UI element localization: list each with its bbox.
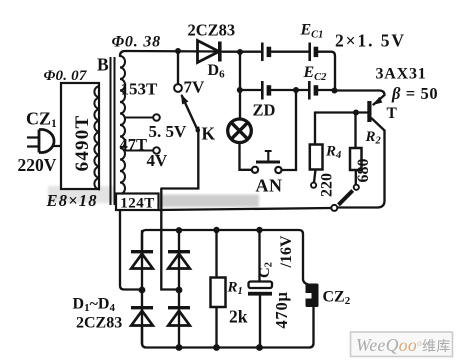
junction: top rail / R1	[213, 227, 219, 233]
tap 5.5V stub + terminal	[125, 114, 160, 121]
wire: base node down to R2	[354, 113, 356, 149]
plug CZ1	[27, 130, 54, 153]
wire: battery row2 right + emitter feed	[318, 90, 385, 105]
wire: battery row2 mid	[272, 89, 309, 91]
svg-text:3AX31: 3AX31	[376, 66, 427, 83]
switch K arm	[181, 94, 200, 133]
tap 4V stub + terminal	[125, 147, 160, 154]
wire: 7V drop	[177, 51, 179, 84]
socket CZ2	[306, 284, 319, 308]
svg-text:2CZ83: 2CZ83	[188, 21, 236, 40]
junction: bridge col1 midpoint	[139, 287, 146, 294]
wire: switch to collector riser	[338, 131, 385, 208]
wire: K pivot down, left, down to bridge col2 mid	[161, 128, 198, 290]
svg-text:/16V: /16V	[278, 235, 295, 268]
junction: top rail / col2	[176, 227, 182, 233]
wire: bottom row to on/off switch	[159, 208, 332, 210]
svg-text:6490T: 6490T	[72, 115, 93, 172]
bridge diode D1 (col1 top)	[131, 250, 153, 269]
resistor R1	[211, 278, 226, 308]
svg-text:47T: 47T	[120, 135, 148, 154]
wire: battery row2 left	[240, 89, 262, 91]
wire: secondary top to diode anode	[120, 51, 221, 56]
watermark box bottom right	[351, 332, 453, 357]
wire: diode node down through lamp node	[239, 52, 241, 118]
junction: bottom rail / col2	[176, 344, 183, 351]
svg-text:B: B	[97, 55, 109, 75]
diode D6	[198, 41, 222, 63]
primary winding box 6490T	[61, 83, 99, 189]
transformer core	[111, 57, 115, 205]
junction: D6 cathode node	[237, 49, 243, 55]
svg-text:220: 220	[319, 173, 336, 197]
wire: base wire	[315, 111, 367, 113]
wire: transformer bottom down to bridge col1 mid	[120, 204, 139, 290]
svg-text:D1~D4: D1~D4	[73, 296, 116, 315]
bridge diode D3 (col1 bottom)	[131, 306, 153, 326]
svg-text:Φ0. 07: Φ0. 07	[44, 68, 87, 84]
lamp ZD	[228, 119, 252, 143]
svg-text:2k: 2k	[229, 307, 248, 327]
push button AN	[252, 151, 282, 173]
wire: collector diagonal	[372, 119, 385, 131]
svg-text:Φ0. 38: Φ0. 38	[112, 34, 161, 51]
battery EC1 cells	[261, 43, 318, 62]
svg-text:4V: 4V	[147, 151, 169, 170]
primary coil bumps	[94, 86, 100, 190]
svg-text:AN: AN	[256, 176, 283, 196]
svg-text:2CZ83: 2CZ83	[76, 315, 122, 332]
svg-text:E8×18: E8×18	[46, 191, 98, 210]
junction: base / R2 node	[353, 110, 359, 116]
wire: diode cathode to battery row 1	[223, 51, 262, 53]
junction: top rail / C2	[256, 227, 262, 233]
wire: R2 bottom stub	[355, 170, 357, 185]
resistor R2	[350, 148, 362, 170]
svg-text:7V: 7V	[184, 78, 206, 97]
svg-text:2×1. 5V: 2×1. 5V	[335, 31, 406, 51]
wire: R1 stubs	[215, 230, 217, 348]
R2 bottom contact	[354, 185, 359, 190]
secondary coil bumps	[120, 56, 125, 205]
svg-text:680: 680	[355, 159, 372, 183]
wire: bridge col1 segments	[141, 231, 143, 344]
wire: AN right up to row2	[282, 90, 296, 170]
svg-text:470μ: 470μ	[272, 291, 291, 328]
junction: AN riser on row2	[293, 87, 299, 93]
7V terminal	[174, 84, 182, 92]
wire: R4 bottom stub	[314, 170, 316, 183]
svg-text:K: K	[202, 124, 216, 144]
wire: bridge col2 segments	[178, 231, 180, 347]
R4 bottom contact	[311, 183, 316, 188]
svg-text:5. 5V: 5. 5V	[149, 122, 188, 141]
wire: base wire down to R4	[314, 113, 316, 145]
wire: bottom rail	[142, 308, 314, 348]
bridge diode D2 (col2 top)	[168, 250, 190, 269]
svg-text:β = 50: β = 50	[391, 84, 438, 103]
bridge diode D4 (col2 bottom)	[168, 306, 190, 326]
wire: bridge top rail to CZ2 top	[142, 230, 311, 285]
transistor T	[367, 97, 382, 122]
junction: bottom rail / C2	[256, 344, 263, 351]
svg-text:ZD: ZD	[253, 101, 276, 120]
junction: bottom rail / R1	[213, 344, 220, 351]
wire: C2 stubs	[258, 230, 261, 348]
svg-text:T: T	[387, 105, 398, 122]
capacitor C2	[248, 282, 272, 296]
wire: battery row1 right to corner down	[318, 52, 335, 91]
svg-text:153T: 153T	[121, 80, 159, 99]
124T label box	[116, 194, 159, 212]
on/off switch pivot + arm	[331, 191, 352, 211]
junction: secondary top / 7V branch	[175, 48, 181, 54]
junction: bridge col2 midpoint	[176, 287, 183, 294]
wire: plug cord	[54, 145, 61, 147]
wire: battery row1 mid segment	[272, 51, 309, 53]
junction: lamp branch on row2	[237, 87, 243, 93]
svg-text:124T: 124T	[120, 196, 155, 212]
svg-text:220V: 220V	[18, 155, 57, 175]
junction: EC1/EC2 right node	[332, 88, 338, 94]
watermark grey band center	[48, 186, 259, 207]
battery EC2 cells	[261, 81, 318, 100]
resistor R4	[310, 145, 323, 170]
wire: lamp bottom to AN left	[240, 145, 252, 170]
